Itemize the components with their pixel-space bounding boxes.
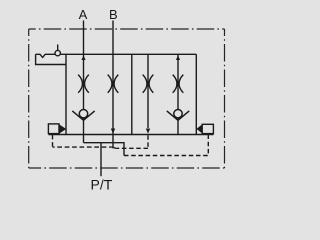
svg-text:P/T: P/T bbox=[91, 177, 113, 193]
svg-text:A: A bbox=[79, 7, 88, 22]
svg-text:B: B bbox=[109, 7, 118, 22]
